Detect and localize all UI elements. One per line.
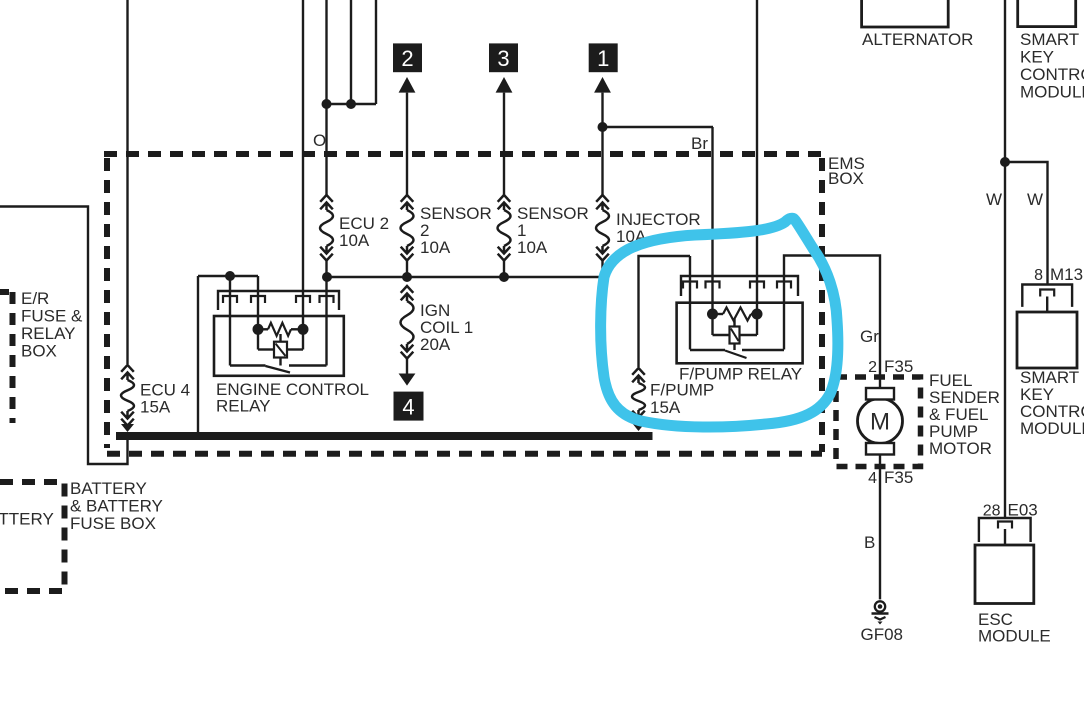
wire power bus [327, 276, 603, 278]
node smart key branch junction [1000, 157, 1010, 167]
svg-text:8: 8 [1034, 267, 1043, 284]
wire engine relay feed horizontal [198, 275, 258, 277]
svg-text:KEY: KEY [1020, 48, 1054, 67]
svg-text:O: O [313, 131, 326, 150]
wire smart key branch [1005, 162, 1048, 285]
svg-text:& BATTERY: & BATTERY [70, 497, 163, 516]
alternator box [862, 0, 949, 27]
svg-text:10A: 10A [420, 238, 451, 257]
svg-text:CONTROL: CONTROL [1020, 65, 1084, 84]
relay U2 core stub lower [733, 344, 735, 351]
box 3 (connector ref) [489, 43, 518, 72]
relay U2 switch blade [725, 351, 747, 359]
motor M1 bottom commutator [866, 443, 894, 455]
relay U2 core stub upper [733, 319, 735, 327]
wire ECU2 feed upper [325, 0, 327, 195]
svg-text:SMART: SMART [1020, 30, 1079, 49]
wire engine relay pin3 feed from top [302, 0, 304, 330]
wire F/PUMP relay pin1 feed [639, 256, 691, 367]
motor M1 top commutator [866, 388, 894, 400]
wire smart key / ESC feed from top [1004, 0, 1006, 519]
relay U2 contact line right [742, 349, 784, 351]
wire branch upper 3 [375, 0, 377, 104]
relay U1 link left [258, 348, 274, 350]
E/R fuse relay box dashed top stub [0, 289, 9, 295]
relay U2 pin4 wire to motor [784, 256, 880, 389]
relay U1 switch blade [266, 366, 291, 373]
svg-text:MODULE: MODULE [978, 627, 1051, 646]
fuse IGN COIL1 20A [401, 286, 414, 359]
relay U1 core stub upper [279, 334, 281, 342]
svg-text:F35: F35 [884, 468, 913, 487]
relay U1 pin 1 [223, 296, 237, 303]
fuse ECU2 10A [320, 195, 333, 261]
box 4 (connector ref) [394, 392, 424, 421]
wire branch upper 2 [350, 0, 352, 104]
relay U2 link right [739, 334, 757, 336]
wire engine relay pin2 drop [257, 276, 259, 329]
relay U1 coil stub right [291, 328, 303, 330]
connector M13 pin [1040, 290, 1054, 297]
E/R fuse relay box dashed edge [10, 292, 16, 423]
arrow to box 1 [594, 77, 611, 93]
EMS box bottom dashed edge [107, 451, 822, 457]
wire SENSOR2 to bus [406, 260, 408, 277]
fuse SENSOR2 10A [401, 195, 414, 261]
svg-text:F/PUMP RELAY: F/PUMP RELAY [679, 365, 802, 384]
relay U2 contact line left [690, 349, 725, 351]
connector M13 bracket [1022, 285, 1072, 307]
svg-text:BOX: BOX [828, 169, 864, 188]
relay U2 coil drop right [756, 314, 758, 335]
relay U1 pin 2 [251, 296, 265, 303]
relay U2 coil winding [723, 308, 751, 321]
relay U1 pin 4 [320, 296, 334, 303]
relay U2 pin 1 [683, 282, 697, 289]
relay U2 coil drop left [711, 314, 713, 335]
svg-text:1: 1 [597, 46, 609, 71]
wire engine relay pin1 drop [229, 276, 231, 366]
svg-text:SENSOR: SENSOR [517, 204, 589, 223]
node bus junction SENSOR2 [402, 272, 412, 282]
svg-text:RELAY: RELAY [216, 397, 271, 416]
svg-text:SENSOR: SENSOR [420, 204, 492, 223]
relay U2 F/PUMP RELAY body [677, 303, 803, 364]
relay U1 core stub lower [279, 358, 281, 366]
relay U1 coil winding [268, 323, 291, 336]
svg-text:M13: M13 [1050, 265, 1083, 284]
relay U2 coil right node [752, 309, 763, 320]
svg-text:GF08: GF08 [861, 625, 904, 644]
relay U1 core diagonal [276, 344, 286, 357]
ground GF08 symbol [872, 601, 889, 624]
relay U1 coil drop right [302, 329, 304, 349]
relay U1 coil drop left [257, 329, 259, 349]
fuse INJECTOR 10A [596, 195, 609, 261]
EMS box right dashed edge [819, 158, 825, 452]
wire Br branch horizontal [603, 126, 714, 128]
svg-text:BATTERY: BATTERY [70, 479, 147, 498]
ground bus bar [116, 432, 653, 440]
svg-text:BOX: BOX [21, 342, 57, 361]
svg-text:ALTERNATOR: ALTERNATOR [862, 30, 973, 49]
wire E/R box loop bottom [0, 207, 128, 465]
fuel pump dashed box [836, 377, 921, 467]
wire engine relay feed left [197, 276, 199, 432]
svg-text:W: W [1027, 190, 1043, 209]
EMS box top dashed edge [104, 151, 822, 157]
svg-text:4: 4 [402, 395, 414, 420]
svg-text:FUSE &: FUSE & [21, 307, 83, 326]
svg-text:MODULE: MODULE [1020, 83, 1084, 102]
relay U2 core diagonal [731, 329, 739, 342]
node junction A [322, 99, 332, 109]
motor M1 circle [858, 399, 903, 444]
svg-text:E/R: E/R [21, 289, 49, 308]
svg-text:15A: 15A [140, 398, 171, 417]
arrow ECU4 to ground bar [121, 424, 134, 432]
svg-text:2: 2 [401, 46, 413, 71]
smart key control module box [1017, 312, 1077, 368]
svg-text:20A: 20A [420, 335, 451, 354]
wire sensor1 riser [503, 93, 505, 195]
fuse SENSOR1 10A [498, 195, 511, 261]
wire feed to ECU4 fuse from top [126, 0, 128, 364]
EMS box left dashed edge [104, 158, 110, 448]
wire M13 pin to smart key module [1046, 297, 1048, 313]
svg-text:3: 3 [497, 46, 509, 71]
relay U1 ENGINE CONTROL RELAY body [214, 316, 344, 376]
node junction B [346, 99, 356, 109]
relay U2 pin 3 [750, 282, 764, 289]
fuse ECU4 15A [121, 365, 134, 426]
node engine relay feed junction [225, 271, 235, 281]
wire SENSOR1 to bus [503, 260, 505, 277]
connector E03 pin [998, 522, 1012, 529]
svg-text:Br: Br [691, 134, 708, 153]
svg-text:RELAY: RELAY [21, 324, 76, 343]
svg-text:BATTERY: BATTERY [0, 510, 54, 529]
node ECU2/relay junction drop to pin4 [325, 277, 327, 366]
wire F/PUMP relay pin3 feed from top [756, 0, 758, 315]
relay U1 coil stub left [258, 328, 268, 330]
wire motor to ground [879, 454, 881, 599]
relay U2 pin1 drop [689, 256, 691, 350]
svg-text:10A: 10A [517, 238, 548, 257]
relay U2 coil left node [707, 309, 718, 320]
wire ECU2 to bus [325, 260, 327, 277]
svg-text:10A: 10A [339, 231, 370, 250]
relay U1 connector strip [218, 291, 339, 310]
svg-text:W: W [986, 190, 1002, 209]
svg-text:F35: F35 [884, 357, 913, 376]
relay U1 coil right node [298, 324, 309, 335]
svg-text:E03: E03 [1008, 501, 1038, 520]
svg-text:15A: 15A [650, 398, 681, 417]
wire E03 pin to ESC module [1004, 529, 1006, 545]
relay U1 contact line right [289, 364, 327, 366]
svg-text:MOTOR: MOTOR [929, 439, 992, 458]
relay U1 contact line left [230, 364, 266, 366]
svg-text:MODULE: MODULE [1020, 419, 1084, 438]
svg-text:M: M [870, 409, 890, 436]
box 2 (connector ref) [393, 43, 422, 72]
wire INJECTOR to bus [601, 260, 603, 277]
node bus junction ECU2 [322, 272, 332, 282]
blue highlight circle annotation [601, 218, 838, 427]
battery fuse box dashed border [0, 482, 65, 591]
connector E03 bracket [979, 518, 1031, 542]
svg-text:4: 4 [868, 470, 877, 487]
arrow to box 2 [399, 77, 416, 93]
ESC module box [975, 545, 1034, 604]
svg-text:2: 2 [868, 359, 877, 376]
node bus junction SENSOR1 [499, 272, 509, 282]
relay U2 connector strip [681, 276, 798, 296]
relay U1 pin 3 [296, 296, 310, 303]
relay U2 core box [730, 327, 740, 344]
relay U2 link left [713, 334, 730, 336]
node junction Br [598, 122, 608, 132]
relay U2 coil stub left [713, 313, 724, 315]
box 1 (connector ref) [589, 43, 618, 72]
svg-text:Gr: Gr [860, 327, 879, 346]
arrow to box 4 [399, 374, 416, 386]
relay U2 coil stub right [751, 313, 757, 315]
arrow to box 3 [496, 77, 513, 93]
wire injector riser [601, 93, 603, 195]
fuse F/PUMP 15A [632, 368, 645, 425]
relay U1 coil left node [253, 324, 264, 335]
relay U1 core box [274, 342, 287, 358]
arrow F/PUMP fuse to ground bar [632, 423, 645, 431]
relay U2 pin 4 [777, 282, 791, 289]
relay U1 link right [287, 348, 303, 350]
smart key top box [1018, 0, 1076, 27]
relay U2 pin 2 [706, 282, 720, 289]
wire Br branch down to F/PUMP relay pin2 [711, 127, 713, 315]
wire IGN fuse to arrow [406, 359, 408, 375]
wire sensor2 riser [406, 93, 408, 195]
wire upper horizontal link [327, 103, 377, 105]
svg-text:B: B [864, 533, 875, 552]
svg-text:FUSE BOX: FUSE BOX [70, 514, 156, 533]
